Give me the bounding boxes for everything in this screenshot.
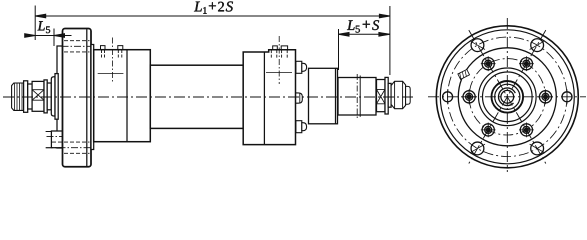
flange bottom-left foot block (46, 131, 63, 148)
center boss inner (495, 84, 520, 109)
left threaded stud (12, 83, 24, 110)
rear head block (243, 50, 295, 145)
sleeve C axis mark (356, 74, 358, 119)
rod sleeve section C (338, 78, 376, 116)
left washer (24, 81, 28, 113)
front port hidden thread lines (102, 50, 122, 59)
horizontal centerline (428, 96, 586, 98)
dimension L5+S (339, 29, 390, 70)
rear port center tick (266, 72, 292, 74)
left step collar (55, 74, 58, 120)
label L5+S (347, 20, 379, 32)
center boss outer (492, 81, 524, 113)
vertical centerline (506, 18, 508, 172)
rod sleeve section B (309, 68, 338, 124)
bolt hole bottom-right (531, 142, 544, 155)
left lock nut with cross (32, 81, 44, 111)
centerline main axis (3, 96, 416, 98)
right neck collar (388, 83, 391, 107)
side hole left (443, 92, 453, 102)
left washer 2 (44, 80, 47, 113)
socket screws x6 (462, 56, 553, 137)
left rounded bush (51, 77, 55, 116)
bolt hole top-right (531, 39, 544, 52)
flange bottom bolt hole hidden lines (46, 137, 91, 154)
pilot circle (458, 48, 556, 146)
inner circle 1 (479, 68, 537, 126)
rear block seam (263, 52, 265, 145)
right rod threaded tip (406, 86, 411, 104)
front port axis (112, 38, 114, 84)
dimension L1+2S (35, 6, 390, 76)
dimension L5 (25, 29, 72, 47)
rear fitting bottom (296, 121, 307, 133)
left neck (28, 84, 32, 109)
head gland spacer (91, 45, 94, 150)
left bush (47, 83, 51, 110)
rear fitting top (296, 61, 307, 73)
head block seam (126, 50, 128, 142)
bolt hole top-left (471, 39, 484, 52)
label L5 (37, 21, 50, 33)
side hole ticks (448, 89, 567, 104)
gland retainer plate (57, 46, 63, 148)
right lock block with cross (377, 80, 386, 112)
mounting flange FA (63, 29, 92, 167)
right washer (385, 77, 388, 114)
sleeve C seam (359, 76, 361, 117)
key pin detail (458, 69, 470, 79)
side hole right (562, 92, 572, 102)
outer bolt circle (448, 37, 567, 156)
rear port hidden thread lines (271, 50, 287, 58)
rear port boss marks (273, 46, 288, 50)
front port center tick (98, 72, 124, 74)
inner circle 2 (483, 72, 533, 122)
right rod nut (391, 81, 406, 108)
screw bolt circle (469, 59, 545, 135)
flange chamfer circle (440, 30, 574, 164)
front cylinder head block (94, 50, 151, 142)
bolt hole bottom-left (471, 142, 484, 155)
label L1+2S (194, 1, 233, 13)
front port boss marks (101, 46, 123, 50)
diagonal centerline NE-SW (469, 30, 546, 163)
thread arc (498, 88, 515, 106)
diagonal centerline NW-SE (469, 30, 546, 163)
rear port axis (278, 36, 280, 84)
flange outer circle (436, 26, 578, 168)
bolt hole ticks (470, 41, 545, 153)
flange rim line (86, 29, 88, 166)
cylinder tube (150, 65, 243, 128)
sleeve B inner seam (335, 68, 337, 124)
flange top bolt hole hidden lines (62, 41, 91, 52)
center bore (501, 90, 514, 103)
center grease boss (296, 93, 303, 103)
